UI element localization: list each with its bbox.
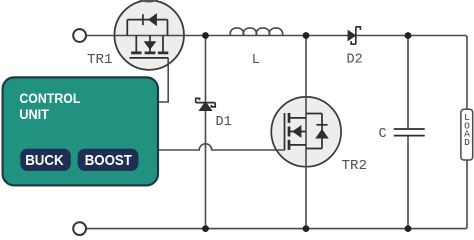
TR1 bulk arrow [145, 42, 156, 49]
transistor TR2 body circle [271, 97, 341, 167]
input terminal bottom [73, 222, 86, 235]
input terminal top [73, 29, 86, 42]
node junction dot: bottom rail / D1 branch [202, 225, 209, 232]
TR2 bulk arrow [293, 126, 301, 137]
transistor TR2 internals [285, 113, 328, 150]
svg-text:C: C [379, 127, 387, 142]
wire D1 branch vertical [205, 36, 207, 229]
wire capacitor branch lower [407, 136, 409, 228]
diode D2 (schottky) [348, 27, 360, 44]
diode D1 (schottky) [196, 98, 216, 110]
TR2 body diode cathode bar [316, 124, 327, 126]
TR1 drain/source/bulk stubs [136, 36, 163, 52]
node junction dot: bottom rail / TR2 source branch [303, 225, 310, 232]
TR1 gate electrode [130, 57, 169, 59]
node junction dot: top rail / TR2 drain branch [303, 32, 310, 39]
node junction dot: top rail / D1 branch [202, 32, 209, 39]
wire top rail from input terminal to top-right corner [86, 36, 467, 110]
control unit box [3, 77, 158, 185]
inductor L [230, 28, 282, 36]
transistor TR1 internals [127, 14, 168, 58]
svg-text:TR1: TR1 [87, 53, 113, 68]
svg-text:CONTROL: CONTROL [19, 91, 80, 106]
svg-text:D1: D1 [216, 115, 232, 130]
wire control unit to TR2 gate with hop over D1 branch [158, 144, 284, 150]
TR1 channel contact bars [131, 52, 168, 55]
boost button [78, 149, 139, 171]
TR2 body-diode rail [306, 114, 322, 149]
svg-text:BUCK: BUCK [25, 152, 64, 169]
load letters [464, 112, 470, 148]
svg-text:D2: D2 [347, 52, 363, 67]
wire TR2 branch vertical [305, 36, 307, 229]
svg-text:D: D [464, 137, 470, 148]
TR2 drain/source/bulk stubs [289, 118, 306, 145]
buck button [20, 149, 70, 171]
TR1 body diode triangle [149, 14, 157, 25]
wire right side below LOAD to bottom rail [86, 160, 467, 229]
svg-text:TR2: TR2 [342, 159, 368, 174]
wire TR1 gate to control unit [158, 58, 168, 102]
capacitor C plates [394, 129, 425, 136]
wire capacitor branch upper [407, 36, 409, 129]
TR2 channel contact bars [288, 113, 291, 150]
transistor TR1 body circle [114, 0, 184, 70]
clipped dark arc remnant above TR1 [137, 0, 161, 2]
node junction dot: top rail / capacitor branch [405, 32, 412, 39]
TR1 body-diode rail [127, 20, 167, 36]
svg-text:L: L [252, 53, 260, 68]
load box [461, 109, 473, 160]
node junction dot: bottom rail / capacitor branch [405, 225, 412, 232]
TR2 gate electrode [284, 113, 286, 150]
TR1 body diode cathode bar [142, 14, 144, 25]
TR2 body diode triangle [316, 130, 328, 138]
svg-text:BOOST: BOOST [85, 152, 132, 169]
svg-text:UNIT: UNIT [19, 107, 49, 122]
